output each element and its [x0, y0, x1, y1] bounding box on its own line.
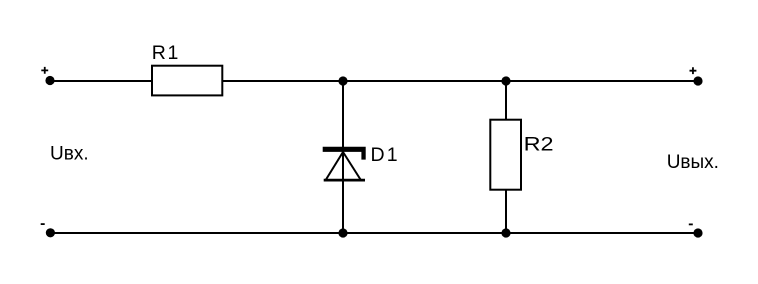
wire: top segment D1 node to R2 node: [343, 80, 506, 82]
wire: top segment R1 to D1 node: [222, 80, 343, 82]
wire: bottom left segment (input - to D1 node): [50, 232, 343, 234]
wire: R2 branch bottom (R2 to bottom node): [505, 189, 507, 233]
node: input + terminal dot: [45, 76, 54, 85]
junction: top node at R2: [501, 76, 510, 85]
wire: bottom segment D1 node to R2 node: [343, 232, 506, 234]
node: input - terminal dot: [46, 228, 55, 237]
label - (output negative): [689, 223, 693, 225]
svg-text:D1: D1: [371, 144, 400, 166]
wire: top right segment (R2 node to output +): [506, 80, 698, 82]
label + (output positive): [690, 67, 697, 74]
zener diode D1 anode triangle: right edge: [343, 152, 361, 180]
junction: bottom node at R2: [501, 228, 510, 237]
svg-text:R1: R1: [152, 42, 180, 64]
svg-text:R2: R2: [524, 134, 554, 156]
node: output - terminal dot: [693, 228, 702, 237]
wire: D1 branch vertical (top node to bottom node): [342, 81, 344, 233]
zener diode D1 anode triangle: left edge: [326, 152, 343, 180]
resistor R2: [490, 120, 521, 190]
label - (input negative): [41, 223, 45, 225]
junction: bottom node at D1: [338, 228, 347, 237]
resistor R1: [152, 66, 222, 96]
wire: R2 branch top (top node to R2): [505, 81, 507, 120]
node: output + terminal dot: [693, 76, 702, 85]
svg-text:Uвых.: Uвых.: [667, 152, 719, 173]
wire: top left segment (input + to R1): [50, 80, 152, 82]
zener diode D1 anode base bar: [324, 179, 365, 182]
wire: bottom right segment (R2 node to output -): [506, 232, 698, 234]
svg-text:Uвх.: Uвх.: [50, 143, 89, 164]
junction: top node at D1: [338, 76, 347, 85]
zener diode D1 cathode bar with right hook: [323, 147, 366, 160]
label + (input positive): [41, 67, 48, 74]
